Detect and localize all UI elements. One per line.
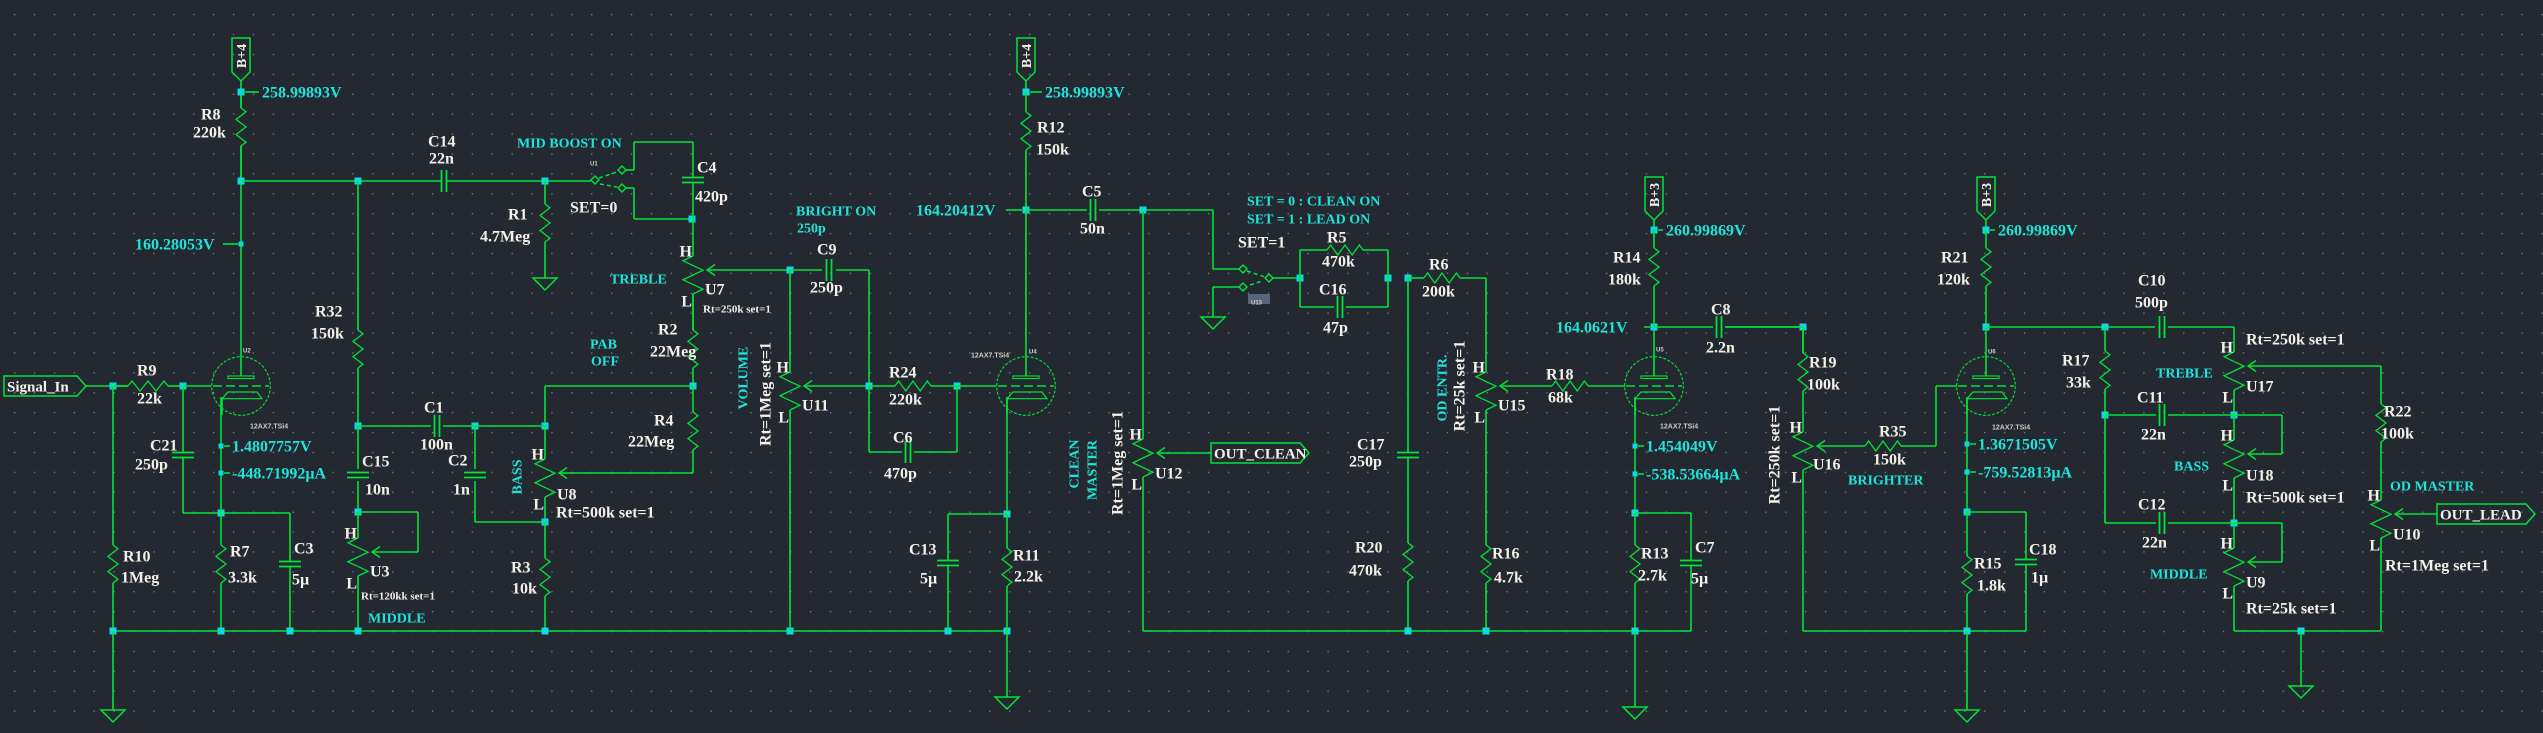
svg-text:L: L [778, 410, 789, 427]
svg-text:164.0621V: 164.0621V [1556, 320, 1628, 337]
svg-text:MID BOOST ON: MID BOOST ON [517, 137, 622, 152]
svg-text:Rt=250k set=1: Rt=250k set=1 [703, 304, 771, 316]
svg-text:TREBLE: TREBLE [610, 273, 667, 288]
svg-text:R22: R22 [2384, 404, 2412, 421]
svg-text:L: L [2222, 390, 2233, 407]
svg-text:H: H [1790, 420, 1803, 437]
svg-text:Rt=120kk set=1: Rt=120kk set=1 [361, 591, 435, 603]
svg-text:Rt=250k set=1: Rt=250k set=1 [1767, 406, 1784, 505]
svg-text:C6: C6 [893, 430, 913, 447]
svg-text:250p: 250p [810, 280, 843, 297]
svg-text:470k: 470k [1349, 563, 1382, 580]
svg-text:3.3k: 3.3k [228, 570, 257, 587]
svg-text:1µ: 1µ [2031, 570, 2048, 587]
svg-text:C9: C9 [817, 242, 837, 259]
svg-text:260.99869V: 260.99869V [1998, 223, 2078, 240]
svg-text:R12: R12 [1037, 120, 1065, 137]
svg-text:U17: U17 [2246, 379, 2274, 396]
svg-text:U5: U5 [1656, 348, 1664, 354]
svg-text:10k: 10k [512, 581, 537, 598]
svg-text:420p: 420p [695, 189, 728, 206]
svg-text:220k: 220k [889, 392, 922, 409]
svg-text:4.7k: 4.7k [1494, 570, 1523, 587]
svg-text:258.99893V: 258.99893V [262, 85, 342, 102]
svg-text:R35: R35 [1879, 424, 1907, 441]
svg-text:U16: U16 [1813, 457, 1841, 474]
svg-text:L: L [681, 294, 692, 311]
svg-text:C5: C5 [1082, 184, 1102, 201]
svg-text:120k: 120k [1937, 272, 1970, 289]
svg-text:250p: 250p [135, 457, 168, 474]
svg-text:B+4: B+4 [1020, 44, 1035, 68]
svg-text:260.99869V: 260.99869V [1666, 223, 1746, 240]
svg-text:C14: C14 [428, 134, 456, 151]
svg-text:U12: U12 [1155, 466, 1183, 483]
svg-text:R32: R32 [315, 304, 343, 321]
svg-text:4.7Meg: 4.7Meg [480, 229, 530, 246]
svg-text:Signal_In: Signal_In [7, 380, 69, 396]
svg-text:R24: R24 [889, 365, 917, 382]
svg-text:R1: R1 [508, 207, 528, 224]
svg-text:H: H [2221, 340, 2234, 357]
svg-text:C10: C10 [2138, 273, 2166, 290]
svg-text:12AX7.TSi4: 12AX7.TSi4 [1992, 425, 2030, 432]
svg-text:R4: R4 [654, 413, 674, 430]
svg-text:2.7k: 2.7k [1638, 568, 1667, 585]
svg-text:150k: 150k [1036, 142, 1069, 159]
svg-text:SET=0: SET=0 [570, 200, 617, 217]
svg-text:L: L [1791, 470, 1802, 487]
svg-text:C18: C18 [2029, 542, 2057, 559]
svg-text:Rt=250k set=1: Rt=250k set=1 [2246, 332, 2345, 349]
svg-text:50n: 50n [1080, 221, 1105, 238]
svg-text:-759.52813µA: -759.52813µA [1978, 465, 2073, 482]
svg-text:U9: U9 [2246, 575, 2266, 592]
svg-text:22n: 22n [2142, 535, 2167, 552]
svg-text:250p: 250p [797, 222, 826, 237]
svg-text:H: H [345, 526, 358, 543]
svg-text:U3: U3 [370, 564, 390, 581]
svg-text:R16: R16 [1492, 546, 1520, 563]
svg-text:5µ: 5µ [920, 571, 937, 588]
svg-text:2.2n: 2.2n [1706, 340, 1735, 357]
svg-text:Rt=25k set=1: Rt=25k set=1 [1452, 341, 1469, 432]
svg-text:BRIGHTER: BRIGHTER [1848, 474, 1924, 489]
svg-text:U10: U10 [2393, 527, 2421, 544]
svg-text:C15: C15 [362, 454, 390, 471]
svg-text:C11: C11 [2137, 390, 2164, 407]
svg-text:H: H [2221, 428, 2234, 445]
svg-text:R13: R13 [1641, 546, 1669, 563]
svg-text:Rt=1Meg set=1: Rt=1Meg set=1 [758, 342, 775, 446]
svg-text:C7: C7 [1695, 540, 1715, 557]
svg-text:22n: 22n [429, 151, 454, 168]
svg-text:47p: 47p [1323, 320, 1348, 337]
svg-text:R15: R15 [1974, 556, 2002, 573]
svg-text:U6: U6 [1988, 350, 1996, 356]
svg-text:C1: C1 [424, 400, 444, 417]
svg-text:BRIGHT ON: BRIGHT ON [796, 205, 876, 220]
svg-text:U13: U13 [1251, 301, 1263, 307]
svg-text:C17: C17 [1357, 437, 1385, 454]
svg-text:C16: C16 [1319, 282, 1347, 299]
svg-text:100k: 100k [1807, 377, 1840, 394]
svg-text:R14: R14 [1613, 250, 1641, 267]
svg-text:U2: U2 [243, 349, 251, 355]
svg-text:H: H [1130, 427, 1143, 444]
svg-text:258.99893V: 258.99893V [1045, 85, 1125, 102]
svg-text:TREBLE: TREBLE [2156, 367, 2213, 382]
svg-text:Rt=1Meg set=1: Rt=1Meg set=1 [2385, 558, 2489, 575]
svg-text:160.28053V: 160.28053V [135, 237, 215, 254]
svg-text:1.3671505V: 1.3671505V [1978, 437, 2058, 454]
svg-text:470k: 470k [1322, 254, 1355, 271]
svg-text:OD ENTR.: OD ENTR. [1436, 355, 1451, 422]
svg-text:5µ: 5µ [1691, 571, 1708, 588]
svg-text:150k: 150k [311, 326, 344, 343]
svg-text:U15: U15 [1498, 398, 1526, 415]
svg-text:OUT_CLEAN: OUT_CLEAN [1214, 447, 1307, 463]
svg-text:164.20412V: 164.20412V [916, 203, 996, 220]
svg-text:R17: R17 [2062, 353, 2090, 370]
svg-text:L: L [533, 497, 544, 514]
svg-text:2.2k: 2.2k [1014, 569, 1043, 586]
svg-text:R7: R7 [230, 544, 250, 561]
svg-text:U1: U1 [590, 162, 598, 168]
svg-text:PAB: PAB [590, 338, 617, 353]
svg-text:R6: R6 [1429, 257, 1449, 274]
svg-text:R3: R3 [511, 560, 531, 577]
svg-text:33k: 33k [2066, 375, 2091, 392]
svg-text:Rt=500k set=1: Rt=500k set=1 [2246, 490, 2345, 507]
svg-text:-448.71992µA: -448.71992µA [232, 466, 327, 483]
svg-text:VOLUME: VOLUME [737, 347, 752, 410]
svg-text:R18: R18 [1546, 367, 1574, 384]
svg-text:-538.53664µA: -538.53664µA [1646, 467, 1741, 484]
svg-text:1.454049V: 1.454049V [1646, 439, 1718, 456]
svg-text:L: L [2369, 538, 2380, 555]
svg-text:5µ: 5µ [292, 572, 309, 589]
svg-text:470p: 470p [884, 466, 917, 483]
svg-text:C3: C3 [294, 541, 314, 558]
svg-text:C13: C13 [909, 542, 937, 559]
svg-text:BASS: BASS [511, 459, 526, 494]
svg-text:R21: R21 [1941, 250, 1969, 267]
svg-text:R5: R5 [1327, 230, 1347, 247]
svg-text:12AX7.TSi4: 12AX7.TSi4 [250, 424, 288, 431]
svg-text:MIDDLE: MIDDLE [368, 612, 426, 627]
svg-text:R19: R19 [1809, 355, 1837, 372]
svg-text:H: H [532, 447, 545, 464]
svg-text:R20: R20 [1355, 540, 1383, 557]
svg-text:100n: 100n [420, 437, 453, 454]
svg-text:R9: R9 [137, 363, 157, 380]
svg-text:OFF: OFF [591, 355, 619, 370]
svg-text:22Meg: 22Meg [650, 344, 696, 361]
svg-text:150k: 150k [1873, 452, 1906, 469]
svg-text:OD MASTER: OD MASTER [2390, 480, 2475, 495]
svg-text:1Meg: 1Meg [121, 570, 159, 587]
svg-text:U8: U8 [557, 487, 577, 504]
svg-text:C12: C12 [2138, 497, 2166, 514]
svg-text:SET = 0 : CLEAN ON: SET = 0 : CLEAN ON [1247, 195, 1380, 210]
svg-text:22k: 22k [137, 391, 162, 408]
svg-text:C21: C21 [150, 438, 178, 455]
svg-text:Rt=500k set=1: Rt=500k set=1 [556, 505, 655, 522]
svg-text:L: L [1474, 410, 1485, 427]
svg-text:U7: U7 [705, 282, 725, 299]
svg-text:MIDDLE: MIDDLE [2150, 568, 2208, 583]
svg-text:1.4807757V: 1.4807757V [232, 439, 312, 456]
svg-text:C4: C4 [697, 160, 717, 177]
svg-text:CLEAN: CLEAN [1068, 439, 1083, 488]
svg-text:B+4: B+4 [235, 44, 250, 68]
svg-text:H: H [1473, 360, 1486, 377]
svg-text:U4: U4 [1029, 350, 1037, 356]
svg-text:L: L [2222, 586, 2233, 603]
svg-text:500p: 500p [2135, 295, 2168, 312]
svg-text:L: L [2222, 478, 2233, 495]
svg-text:R10: R10 [123, 549, 151, 566]
svg-text:H: H [680, 244, 693, 261]
svg-text:BASS: BASS [2174, 460, 2209, 475]
svg-text:Rt=1Meg set=1: Rt=1Meg set=1 [1110, 411, 1127, 515]
svg-text:12AX7.TSi4: 12AX7.TSi4 [971, 353, 1009, 360]
svg-text:B+3: B+3 [1980, 183, 1995, 207]
svg-text:12AX7.TSi4: 12AX7.TSi4 [1660, 424, 1698, 431]
svg-text:U11: U11 [802, 398, 829, 415]
svg-text:C2: C2 [448, 453, 468, 470]
svg-text:180k: 180k [1608, 272, 1641, 289]
svg-text:Rt=25k set=1: Rt=25k set=1 [2246, 601, 2337, 618]
svg-text:C8: C8 [1711, 302, 1731, 319]
svg-text:OUT_LEAD: OUT_LEAD [2440, 508, 2522, 524]
svg-text:250p: 250p [1349, 454, 1382, 471]
svg-text:H: H [2368, 488, 2381, 505]
svg-text:H: H [2221, 536, 2234, 553]
svg-text:220k: 220k [193, 125, 226, 142]
svg-text:200k: 200k [1422, 284, 1455, 301]
svg-text:22Meg: 22Meg [628, 434, 674, 451]
svg-text:L: L [346, 576, 357, 593]
svg-text:SET = 1 : LEAD ON: SET = 1 : LEAD ON [1247, 213, 1370, 228]
svg-text:1.8k: 1.8k [1977, 578, 2006, 595]
svg-text:68k: 68k [1548, 390, 1573, 407]
svg-text:22n: 22n [2141, 427, 2166, 444]
svg-text:MASTER: MASTER [1086, 439, 1101, 500]
svg-text:H: H [777, 360, 790, 377]
svg-text:R11: R11 [1013, 548, 1040, 565]
svg-text:SET=1: SET=1 [1238, 235, 1285, 252]
svg-text:B+3: B+3 [1648, 183, 1663, 207]
svg-text:100k: 100k [2381, 426, 2414, 443]
svg-text:R2: R2 [658, 322, 678, 339]
svg-text:10n: 10n [365, 482, 390, 499]
svg-text:U18: U18 [2246, 468, 2274, 485]
svg-text:R8: R8 [201, 107, 221, 124]
svg-text:1n: 1n [453, 482, 470, 499]
svg-text:L: L [1131, 477, 1142, 494]
